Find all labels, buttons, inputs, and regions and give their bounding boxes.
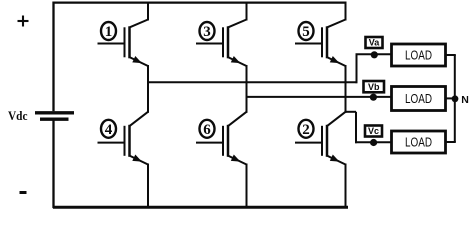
node Va (junction dot) <box>371 51 378 58</box>
node N (junction dot) <box>452 95 459 102</box>
designator circled 4 for Q4 <box>101 120 116 138</box>
designator circled 2 for Q2 <box>299 120 314 138</box>
transistor Q1 (IGBT switch 1) <box>98 2 149 67</box>
node Vb (junction dot) <box>370 94 377 101</box>
wire: phase A horizontal line from leg 1 midpoint <box>148 81 357 83</box>
svg-text:4: 4 <box>105 122 113 138</box>
label - (negative terminal) <box>20 191 27 194</box>
svg-text:5: 5 <box>302 24 310 40</box>
svg-text:2: 2 <box>302 122 310 138</box>
wire: phase C drop to Vc level <box>355 112 357 143</box>
wire: leg 1 midpoint vertical (Q1 emitter to Q4 collector) <box>147 65 149 113</box>
transistor Q5 (IGBT switch 5) <box>295 2 346 67</box>
svg-text:Vb: Vb <box>368 82 380 92</box>
load B box <box>392 87 446 111</box>
transistor Q2 (IGBT switch 2) <box>295 112 346 208</box>
svg-text:N: N <box>461 94 469 106</box>
label box Va <box>366 37 383 48</box>
svg-text:Va: Va <box>369 38 381 48</box>
svg-text:Vdc: Vdc <box>8 108 28 123</box>
svg-text:LOAD: LOAD <box>405 135 432 149</box>
wire: LOAD A output to neutral bus <box>445 54 456 56</box>
wire: phase C tap from leg 3 bottom, horizontal jog <box>346 111 357 113</box>
wire: phase A riser up to Va level <box>356 54 358 83</box>
transistor Q6 (IGBT switch 6) <box>196 112 247 208</box>
wire: positive terminal to battery + plate <box>52 2 54 112</box>
DC source Vdc (battery plates) <box>35 113 74 119</box>
svg-text:1: 1 <box>105 24 113 40</box>
wire: neutral bus vertical <box>454 55 456 142</box>
svg-text:6: 6 <box>203 122 211 138</box>
wire: LOAD B output to neutral bus <box>445 97 456 99</box>
wire: LOAD C output to neutral bus <box>445 141 456 143</box>
load A box <box>392 44 446 66</box>
designator circled 5 for Q5 <box>299 22 314 40</box>
label box Vb <box>364 81 385 92</box>
svg-text:Vc: Vc <box>368 126 379 136</box>
negative DC rail (bottom bus) <box>53 206 348 209</box>
load C box <box>392 131 446 153</box>
label box Vc <box>365 126 382 137</box>
label + (positive terminal) <box>18 16 29 27</box>
transistor Q4 (IGBT switch 4) <box>98 112 149 208</box>
designator circled 1 for Q1 <box>101 22 116 40</box>
node Vc (junction dot) <box>370 139 377 146</box>
wire: leg 3 midpoint vertical (Q5 emitter to Q2 collector) <box>345 65 347 113</box>
wire: phase A to LOAD A <box>356 53 393 55</box>
positive DC rail (top bus) <box>53 1 347 3</box>
designator circled 6 for Q6 <box>200 120 215 138</box>
svg-text:LOAD: LOAD <box>405 48 432 62</box>
wire: battery - plate to negative rail <box>52 121 54 209</box>
svg-text:3: 3 <box>203 24 211 40</box>
designator circled 3 for Q3 <box>200 22 215 40</box>
svg-text:LOAD: LOAD <box>405 92 432 106</box>
transistor Q3 (IGBT switch 3) <box>196 2 247 67</box>
wire: phase B line from leg 2 midpoint to LOAD B <box>247 96 393 98</box>
wire: phase C to LOAD C <box>355 141 392 143</box>
wire: leg 2 midpoint vertical (Q3 emitter to Q6 collector) <box>246 65 248 113</box>
